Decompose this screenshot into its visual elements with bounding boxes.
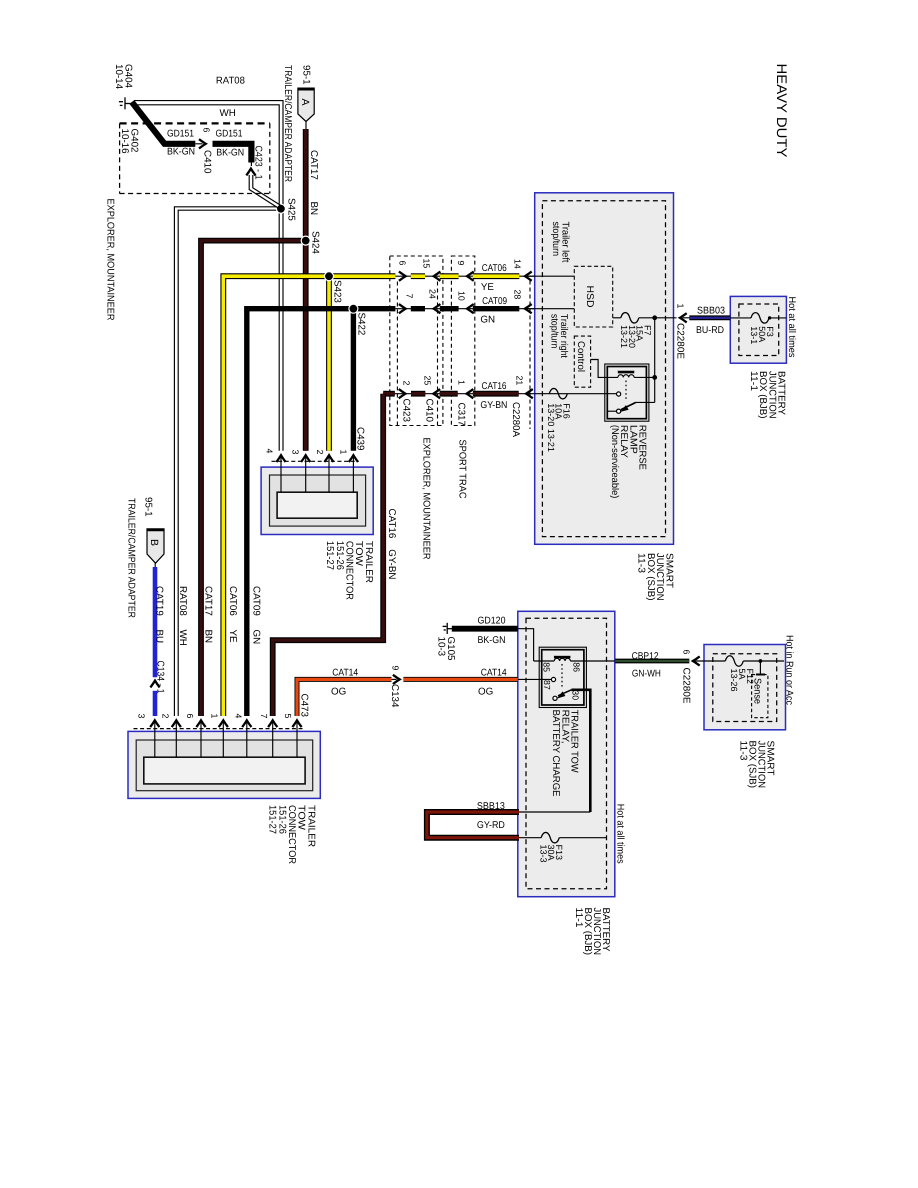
relay 87 terminal [551, 677, 555, 681]
battery junction box BJB (bottom) [518, 611, 615, 896]
trailer tow battery charge relay box [539, 647, 586, 707]
svg-text:6: 6 [202, 128, 212, 133]
svg-text:SBB03: SBB03 [697, 306, 725, 317]
svg-text:CAT06: CAT06 [482, 263, 507, 274]
wire RAT08 WH branch to trailer tow connector pin2 [174, 207, 281, 716]
svg-text:C410: C410 [202, 150, 213, 174]
svg-text:C134: C134 [389, 684, 400, 708]
fuse F16 [549, 388, 567, 399]
svg-text:CAT14: CAT14 [481, 667, 507, 678]
svg-text:4: 4 [234, 714, 244, 719]
svg-text:95-1: 95-1 [143, 497, 154, 517]
reverse lamp relay box [605, 364, 649, 421]
svg-text:C473: C473 [299, 694, 310, 718]
BJB fuse F3 [730, 317, 751, 319]
wire CAT14 OG [297, 679, 392, 716]
svg-text:11-1: 11-1 [748, 371, 759, 391]
fuse F7 [621, 313, 639, 324]
svg-text:10-16: 10-16 [119, 129, 130, 155]
svg-text:11-3: 11-3 [738, 741, 749, 762]
relay armature dashed [561, 664, 563, 688]
connector C410 pin 6 arrow [195, 143, 202, 145]
svg-text:SPORT TRAC: SPORT TRAC [457, 440, 468, 499]
svg-text:GN-WH: GN-WH [632, 668, 661, 679]
in-line connector row: CAT06 YE thin line [395, 275, 534, 277]
wire RAT08 WH (double line from G404) [134, 101, 283, 451]
svg-text:BU-RD: BU-RD [696, 325, 724, 336]
svg-text:CAT16: CAT16 [386, 509, 397, 539]
svg-text:EXPLORER, MOUNTAINEER: EXPLORER, MOUNTAINEER [105, 199, 116, 321]
wire CAT17 BN (from A) + branch to 7-pin pin6 [303, 129, 309, 451]
svg-text:10-14: 10-14 [113, 64, 124, 90]
svg-text:86: 86 [572, 662, 582, 672]
svg-text:SBB13: SBB13 [477, 801, 505, 812]
connector line C410 dashed [437, 282, 439, 426]
fuse F13 [519, 837, 541, 839]
sense drop line [759, 661, 761, 674]
HSD box [574, 266, 612, 327]
svg-text:HEAVY DUTY: HEAVY DUTY [774, 64, 790, 159]
relay coil line [534, 660, 555, 662]
wire into HSD (YE) [527, 275, 574, 277]
connector box C317 SPORT TRAC dashed [451, 256, 474, 426]
svg-text:15: 15 [422, 259, 432, 269]
wire CAT16 GY-BN row [395, 393, 535, 395]
ground G105 [446, 623, 448, 634]
wire into HSD (GN) [527, 308, 574, 310]
svg-text:10: 10 [457, 291, 467, 301]
svg-text:GN: GN [480, 315, 495, 326]
splice S425 [276, 204, 285, 213]
svg-text:C410: C410 [424, 399, 435, 423]
wire GD151 BK-GN (right) [213, 144, 252, 163]
svg-text:10-3: 10-3 [436, 637, 447, 657]
Sense box [752, 675, 768, 718]
svg-text:6: 6 [682, 650, 692, 655]
connector C134 pin 9 arrow [392, 678, 397, 680]
svg-text:C317: C317 [456, 403, 467, 426]
splice S422 [349, 304, 358, 313]
svg-text:CAT14: CAT14 [332, 667, 358, 678]
connector box G402 EXPLORER dashed [120, 122, 270, 124]
svg-text:GY-BN: GY-BN [386, 549, 397, 579]
connector C423-1 arrow [250, 163, 252, 167]
svg-text:2: 2 [402, 381, 412, 386]
svg-text:30: 30 [571, 690, 581, 700]
svg-text:1: 1 [676, 304, 686, 309]
svg-text:C423 - 1: C423 - 1 [253, 146, 264, 180]
relay coil core bar [618, 371, 634, 374]
svg-text:3: 3 [291, 450, 301, 455]
svg-text:9: 9 [456, 261, 466, 266]
svg-text:151-27: 151-27 [324, 541, 335, 570]
svg-text:TRAILER/CAMPER ADAPTER: TRAILER/CAMPER ADAPTER [282, 65, 293, 182]
7-pin trailer tow connector [128, 731, 320, 798]
wire GD120 BK-GN [452, 626, 518, 632]
control line [591, 360, 618, 378]
svg-text:GD151: GD151 [216, 128, 243, 139]
svg-text:Hot at all times: Hot at all times [615, 804, 626, 864]
wire relay 30 output [571, 690, 590, 812]
svg-text:WH: WH [177, 630, 188, 646]
svg-text:EXPLORER, MOUNTAINEER: EXPLORER, MOUNTAINEER [421, 438, 432, 560]
svg-text:3: 3 [137, 714, 147, 719]
svg-text:CAT17: CAT17 [203, 586, 214, 616]
svg-text:CAT09: CAT09 [251, 586, 262, 616]
svg-text:stop/turn: stop/turn [549, 314, 560, 349]
svg-text:6: 6 [185, 714, 195, 719]
Control box [574, 336, 590, 387]
svg-text:CBP12: CBP12 [632, 651, 659, 662]
svg-text:S425: S425 [286, 198, 297, 221]
svg-text:YE: YE [481, 282, 495, 293]
svg-text:24: 24 [428, 289, 438, 299]
svg-text:BN: BN [203, 630, 214, 644]
svg-text:13-20 13-21: 13-20 13-21 [546, 403, 556, 452]
smart junction box SJB (top) [535, 193, 674, 545]
svg-text:87: 87 [542, 680, 552, 690]
svg-text:11-3: 11-3 [636, 553, 647, 574]
svg-text:BK-GN: BK-GN [216, 147, 244, 158]
svg-text:C2280E: C2280E [675, 323, 686, 359]
svg-text:OG: OG [478, 686, 493, 697]
ground G404 [124, 97, 126, 109]
svg-text:YE: YE [227, 630, 238, 644]
wire SBB03 BU-RD [689, 315, 730, 320]
svg-text:13-21: 13-21 [619, 325, 629, 348]
svg-text:S422: S422 [356, 313, 367, 336]
connector A (TRAILER/CAMPER ADAPTER) [298, 88, 314, 121]
svg-text:Hot at all times: Hot at all times [786, 297, 797, 358]
svg-text:1: 1 [457, 380, 467, 385]
relay 30 contact + blade [553, 696, 557, 700]
wire SBB13 GY-RD loop [427, 812, 519, 838]
wire CBP12 GN-WH [615, 659, 689, 664]
battery junction box BJB (top right) [730, 296, 786, 363]
wire GD151 BK-GN (left) [132, 102, 196, 144]
svg-text:C439: C439 [355, 427, 366, 450]
svg-text:5: 5 [283, 714, 293, 719]
svg-text:OG: OG [331, 686, 346, 697]
svg-text:21: 21 [515, 376, 525, 386]
splice S423 [325, 272, 334, 281]
svg-text:1: 1 [339, 450, 349, 455]
svg-text:stop/turn: stop/turn [550, 222, 561, 257]
svg-text:CAT16: CAT16 [482, 381, 507, 392]
svg-text:95-1: 95-1 [301, 65, 312, 85]
svg-text:151-27: 151-27 [267, 805, 278, 834]
svg-text:C2280A: C2280A [510, 402, 521, 437]
wire pin1 C2280E arrow (top) [680, 313, 687, 322]
svg-text:BN: BN [308, 202, 319, 216]
svg-text:BU: BU [154, 630, 165, 644]
CAT09 GN segments [411, 306, 425, 311]
fuse F12 [725, 656, 743, 667]
svg-text:2: 2 [315, 450, 325, 455]
svg-text:GN: GN [251, 630, 262, 645]
svg-text:GD120: GD120 [478, 615, 506, 626]
connector C134-1 arrow [150, 681, 159, 688]
svg-text:S424: S424 [310, 231, 321, 254]
relay coil arcs [618, 375, 634, 378]
svg-text:CAT06: CAT06 [227, 586, 238, 616]
svg-text:BATTERY CHARGE: BATTERY CHARGE [550, 710, 561, 797]
svg-text:Control: Control [575, 341, 586, 372]
svg-text:25: 25 [423, 376, 433, 386]
svg-text:GY-RD: GY-RD [477, 820, 505, 831]
svg-text:14: 14 [513, 259, 523, 269]
connector C2280E pin 6 arrow [693, 656, 700, 665]
svg-text:CAT17: CAT17 [308, 150, 319, 180]
relay coil arcs [554, 658, 570, 661]
svg-text:85: 85 [542, 662, 552, 672]
svg-text:C2280E: C2280E [681, 668, 692, 704]
svg-text:C134 - 1: C134 - 1 [155, 661, 166, 694]
svg-text:WH: WH [220, 108, 236, 119]
svg-text:1: 1 [210, 714, 220, 719]
svg-text:RAT08: RAT08 [177, 586, 188, 616]
svg-text:6: 6 [398, 261, 408, 266]
svg-text:9: 9 [391, 666, 401, 671]
4-pin connector C439 [261, 467, 373, 534]
svg-text:28: 28 [513, 290, 523, 300]
svg-text:Hot in Run or Acc: Hot in Run or Acc [784, 635, 795, 705]
connector line C2280A dashed [529, 281, 531, 430]
svg-text:(Non-serviceable): (Non-serviceable) [609, 425, 620, 499]
svg-text:HSD: HSD [584, 286, 595, 308]
node sense tap [759, 659, 763, 663]
smart junction box SJB (bottom) [704, 645, 786, 730]
svg-text:BK-GN: BK-GN [167, 147, 195, 158]
relay coil core bar [554, 656, 570, 658]
svg-text:S423: S423 [332, 280, 343, 303]
CAT06 YE segments through C423/C410/C317 [411, 273, 425, 279]
svg-text:4: 4 [265, 449, 275, 454]
svg-text:CAT09: CAT09 [482, 296, 507, 307]
node coil tie [652, 375, 657, 380]
wire CAT09 GN main + branch to C439 pin1 [247, 309, 396, 716]
connector box C423/C410 EXPLORER,MOUNTAINEER dashed [390, 256, 443, 426]
svg-text:7: 7 [259, 714, 269, 719]
wire HSD to F7 [613, 317, 621, 319]
svg-text:BK-GN: BK-GN [478, 635, 506, 646]
svg-text:RAT08: RAT08 [216, 76, 246, 87]
svg-text:C423: C423 [401, 399, 412, 423]
svg-text:7: 7 [405, 294, 415, 299]
node F7 junction [652, 315, 657, 320]
in-line connector row: CAT09 GN thin line [395, 308, 534, 310]
svg-text:13-3: 13-3 [538, 845, 548, 863]
relay armature dashed [625, 381, 627, 400]
svg-text:GD151: GD151 [167, 128, 194, 139]
svg-text:Sense: Sense [752, 678, 763, 705]
svg-text:13-1: 13-1 [749, 326, 759, 344]
svg-text:13-26: 13-26 [729, 669, 739, 692]
svg-text:CAT19: CAT19 [154, 586, 165, 616]
wire CAT19 BU from connector B [147, 529, 164, 563]
svg-text:B: B [148, 539, 160, 546]
wire CAT16 GY-BN down to 7-pin pin7 [273, 394, 384, 716]
svg-text:2: 2 [161, 714, 171, 719]
wire junction down to relay [654, 318, 656, 403]
svg-text:A: A [299, 99, 311, 106]
relay common terminal [535, 393, 617, 395]
svg-text:GY-BN: GY-BN [480, 400, 507, 411]
svg-text:11-1: 11-1 [573, 908, 584, 928]
svg-text:TRAILER/CAMPER ADAPTER: TRAILER/CAMPER ADAPTER [126, 498, 137, 618]
wire WH stub C423-1 to S425 (double) [249, 175, 279, 209]
relay NO contact + blade [617, 409, 621, 413]
splice S424 [301, 236, 310, 245]
wire CAT06 YE main + branch to C439 pin2 [223, 276, 329, 716]
